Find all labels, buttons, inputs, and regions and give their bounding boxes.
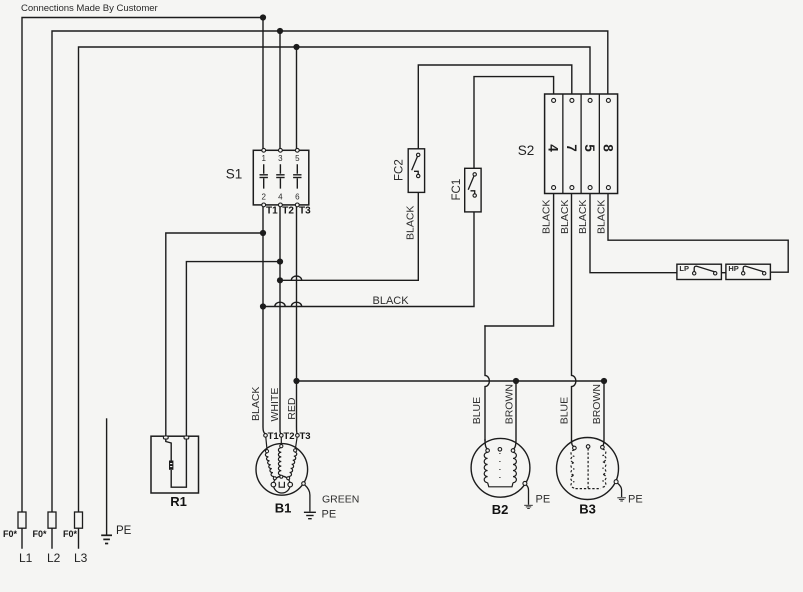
svg-text:T3: T3	[300, 431, 311, 442]
svg-text:HP: HP	[728, 264, 738, 273]
svg-text:B2: B2	[492, 502, 509, 517]
svg-text:PE: PE	[322, 509, 337, 521]
svg-text:L1: L1	[19, 551, 33, 565]
svg-text:GREEN: GREEN	[322, 494, 359, 506]
svg-text:FC2: FC2	[394, 159, 406, 181]
svg-text:S1: S1	[226, 167, 243, 182]
svg-text:BLACK: BLACK	[373, 295, 410, 307]
svg-text:Connections Made By Customer: Connections Made By Customer	[21, 3, 159, 14]
svg-text:B1: B1	[275, 501, 292, 516]
svg-text:BLUE: BLUE	[471, 397, 483, 424]
svg-text:L3: L3	[74, 551, 88, 565]
svg-text:F0*: F0*	[33, 529, 48, 539]
svg-text:F0*: F0*	[63, 529, 78, 539]
svg-text:L2: L2	[47, 551, 61, 565]
svg-text:R1: R1	[170, 494, 187, 509]
svg-text:S2: S2	[518, 143, 535, 158]
svg-text:3: 3	[278, 154, 283, 163]
svg-text:BLACK: BLACK	[541, 200, 553, 234]
svg-text:5: 5	[295, 154, 300, 163]
svg-text:RED: RED	[286, 397, 298, 420]
svg-text:4: 4	[278, 193, 283, 202]
svg-text:T2: T2	[283, 431, 294, 442]
svg-text:BLUE: BLUE	[559, 397, 571, 424]
svg-text:BLACK: BLACK	[404, 206, 416, 240]
svg-text:BLACK: BLACK	[577, 200, 589, 234]
svg-text:8: 8	[600, 144, 615, 152]
svg-text:BROWN: BROWN	[591, 384, 603, 424]
svg-text:T3: T3	[299, 206, 311, 217]
svg-text:T2: T2	[282, 206, 294, 217]
svg-text:LP: LP	[679, 264, 689, 273]
svg-text:BROWN: BROWN	[503, 384, 515, 424]
svg-text:6: 6	[295, 193, 300, 202]
svg-text:WHITE: WHITE	[269, 388, 281, 422]
svg-text:7: 7	[564, 144, 579, 152]
svg-text:BLACK: BLACK	[559, 200, 571, 234]
svg-text:BLACK: BLACK	[250, 387, 262, 421]
svg-text:BLACK: BLACK	[596, 200, 608, 234]
svg-text:F0*: F0*	[3, 529, 18, 539]
svg-text:PE: PE	[536, 494, 551, 506]
svg-text:2: 2	[261, 193, 266, 202]
svg-text:PE: PE	[116, 525, 132, 537]
svg-text:4: 4	[546, 144, 561, 152]
svg-text:B3: B3	[579, 502, 596, 517]
svg-text:FC1: FC1	[451, 179, 463, 201]
svg-text:T1: T1	[268, 431, 280, 442]
svg-text:5: 5	[582, 144, 597, 152]
svg-text:T1: T1	[266, 206, 278, 217]
svg-text:PE: PE	[628, 494, 643, 506]
svg-text:1: 1	[261, 154, 266, 163]
